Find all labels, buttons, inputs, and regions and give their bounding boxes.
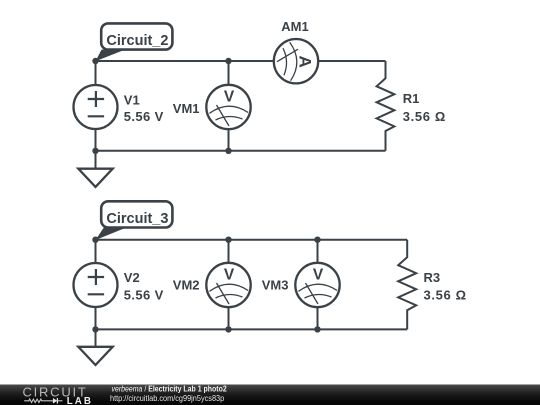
wire bottom rail circuit_2 [96,150,386,152]
CircuitLab logo LAB wordmark [67,396,91,405]
node dot ground circuit_3 [92,326,98,332]
CircuitLab logo CIRCUIT wordmark [23,384,86,399]
callout Circuit_3 [96,201,173,240]
voltage source V2 [74,263,118,307]
svg-text:V1: V1 [124,93,140,108]
callout Circuit_2 [96,23,173,61]
svg-text:5.56 V: 5.56 V [124,109,164,124]
label V1 value [124,109,164,124]
footer credit line [112,384,227,394]
node dot ground circuit_2 [92,148,98,154]
label V2 value [124,287,164,302]
CircuitLab logo resistor-diode glyph [24,398,62,404]
svg-text:3.56 Ω: 3.56 Ω [424,287,467,302]
ammeter AM1 [274,39,318,83]
voltmeter VM3 [295,263,339,307]
label V2 name [124,270,140,285]
voltage source V1 [74,85,118,129]
label VM1 name [173,101,200,116]
svg-text:VM1: VM1 [173,101,200,116]
wire bottom rail circuit_3 [96,328,408,330]
ground circuit_3 [78,329,112,365]
wire top rail circuit_2 [96,60,386,62]
footer url line [110,393,224,403]
svg-text:Circuit_3: Circuit_3 [106,211,168,227]
svg-text:VM2: VM2 [173,277,200,292]
svg-text:V: V [224,267,235,284]
node dot top-left circuit_3 [92,237,98,243]
resistor R1 [377,61,395,151]
label V1 name [124,93,140,108]
wire V2 branch vertical [95,240,97,330]
svg-text:AM1: AM1 [281,19,308,34]
label R1 value [403,109,446,124]
svg-text:R3: R3 [424,270,441,285]
label VM2 name [173,277,200,292]
svg-text:3.56 Ω: 3.56 Ω [403,109,446,124]
voltmeter VM1 [206,85,250,129]
svg-text:VM3: VM3 [262,277,289,292]
node dot VM1 bottom [225,148,231,154]
node dot top-left circuit_2 [92,58,98,64]
label R3 value [424,287,467,302]
ground circuit_2 [78,151,112,187]
svg-text:V: V [224,89,235,106]
voltmeter VM2 [206,263,250,307]
wire top rail circuit_3 [96,239,408,241]
svg-text:LAB: LAB [67,396,91,405]
node dot VM1 top [225,58,231,64]
wire VM2 branch vertical [228,240,230,330]
svg-text:5.56 V: 5.56 V [124,287,164,302]
label R1 name [403,91,420,106]
node dot VM2 bottom [225,326,231,332]
svg-text:Circuit_2: Circuit_2 [106,33,168,49]
svg-text:http://circuitlab.com/cg99jn5y: http://circuitlab.com/cg99jn5ycs83p [110,393,224,403]
svg-text:R1: R1 [403,91,420,106]
wire V1 branch vertical [95,61,97,151]
label AM1 name [281,19,308,34]
footer bar background [0,385,540,405]
resistor R3 [398,240,416,330]
label VM3 name [262,277,289,292]
svg-text:V2: V2 [124,270,140,285]
label R3 name [424,270,441,285]
node dot VM3 bottom [314,326,320,332]
wire VM1 branch vertical [228,61,230,151]
svg-text:V: V [313,267,324,284]
node dot VM2 top [225,237,231,243]
node dot VM3 top [314,237,320,243]
svg-text:verbeema / Electricity Lab 1 p: verbeema / Electricity Lab 1 photo2 [112,384,227,394]
wire VM3 branch vertical [317,240,319,330]
svg-text:A: A [296,56,315,68]
